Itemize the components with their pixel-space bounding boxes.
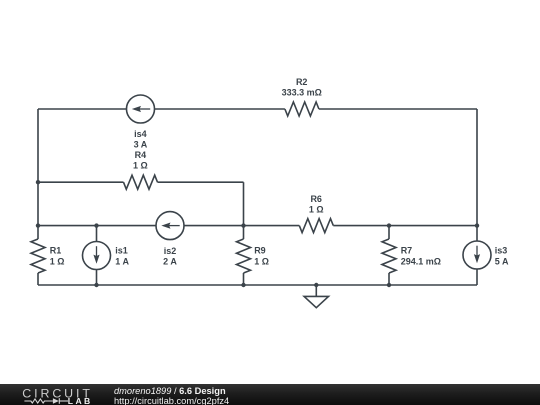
footer info text bbox=[114, 386, 229, 405]
wire right rail below is3 bbox=[476, 269, 478, 285]
resistor R2 bbox=[285, 102, 319, 116]
junction node (477,225.6) bbox=[475, 223, 479, 227]
svg-text:R2: R2 bbox=[296, 77, 308, 87]
svg-text:is1: is1 bbox=[115, 246, 128, 256]
svg-text:3 A: 3 A bbox=[134, 140, 148, 150]
junction node (389,225.6) bbox=[387, 223, 391, 227]
is3 arrow bbox=[476, 246, 478, 256]
junction node (389,285) bbox=[387, 283, 391, 287]
logo resistor squiggle bbox=[24, 399, 53, 403]
is1 arrow bbox=[96, 246, 98, 256]
wire mid rail R6 to right rail bbox=[333, 225, 477, 227]
resistor R9 bbox=[237, 239, 251, 273]
wire top rail is4 to R2 bbox=[155, 108, 285, 110]
svg-text:R9: R9 bbox=[254, 246, 266, 256]
junction node (38,225.6) bbox=[36, 223, 40, 227]
svg-text:is4: is4 bbox=[134, 129, 147, 139]
wire top rail left of is4 bbox=[38, 108, 127, 110]
svg-text:294.1 mΩ: 294.1 mΩ bbox=[401, 256, 441, 266]
resistor R7 bbox=[382, 239, 396, 273]
wire left rail x=38 (top segment) bbox=[37, 109, 39, 239]
wire R7 branch lower lead bbox=[388, 273, 390, 285]
svg-text:R6: R6 bbox=[310, 194, 322, 204]
wire is1 branch upper bbox=[96, 226, 98, 242]
svg-text:R4: R4 bbox=[135, 150, 147, 160]
svg-text:1 A: 1 A bbox=[115, 256, 129, 266]
svg-text:1 Ω: 1 Ω bbox=[50, 256, 65, 266]
junction node (243.5,285) bbox=[241, 283, 245, 287]
ground stem bbox=[315, 285, 317, 296]
wire top rail R2 to right corner bbox=[319, 108, 477, 110]
is2 arrow bbox=[169, 225, 180, 227]
junction node (243.5,225.6) bbox=[241, 223, 245, 227]
svg-text:is2: is2 bbox=[164, 246, 177, 256]
current source is1 bbox=[83, 242, 111, 270]
svg-text:LAB: LAB bbox=[68, 396, 93, 405]
wire left rail x=38 (bottom segment) bbox=[37, 273, 39, 285]
wire R4 rail left lead bbox=[38, 181, 124, 183]
current source is2 bbox=[156, 212, 184, 240]
current source is4 bbox=[127, 95, 155, 123]
resistor R4 bbox=[124, 175, 158, 189]
junction node (96.5,285) bbox=[94, 283, 98, 287]
junction node (38,182) bbox=[36, 180, 40, 184]
wire branch x=243.5 below R9 bbox=[243, 273, 245, 285]
junction node ground (316.3,285) bbox=[314, 283, 318, 287]
svg-text:1 Ω: 1 Ω bbox=[254, 256, 269, 266]
wire mid rail left of is2 bbox=[38, 225, 156, 227]
svg-text:1 Ω: 1 Ω bbox=[309, 205, 324, 215]
ground triangle bbox=[304, 296, 328, 307]
svg-text:is3: is3 bbox=[495, 246, 508, 256]
svg-text:1 Ω: 1 Ω bbox=[133, 161, 148, 171]
wire R7 branch upper lead bbox=[388, 226, 390, 239]
logo diode bbox=[53, 398, 59, 404]
svg-text:333.3 mΩ: 333.3 mΩ bbox=[282, 88, 322, 98]
wire branch x=243.5 from R4 rail to R9 bbox=[243, 182, 245, 239]
wire right rail above is3 bbox=[476, 109, 478, 241]
current source is3 bbox=[463, 241, 491, 269]
junction node (96.5,225.6) bbox=[94, 223, 98, 227]
CircuitLab logo bbox=[0, 384, 100, 405]
footer bar bbox=[0, 384, 540, 405]
svg-text:5 A: 5 A bbox=[495, 256, 509, 266]
resistor R6 bbox=[299, 219, 333, 233]
resistor R1 bbox=[31, 239, 45, 273]
is4 arrow bbox=[139, 108, 150, 110]
svg-text:2 A: 2 A bbox=[163, 257, 177, 267]
svg-text:R7: R7 bbox=[401, 246, 413, 256]
wire R4 rail right lead bbox=[158, 181, 244, 183]
wire bottom rail bbox=[38, 284, 477, 286]
wire mid rail is2 to R6 bbox=[184, 225, 299, 227]
svg-text:R1: R1 bbox=[50, 246, 62, 256]
wire is1 branch lower bbox=[96, 270, 98, 286]
